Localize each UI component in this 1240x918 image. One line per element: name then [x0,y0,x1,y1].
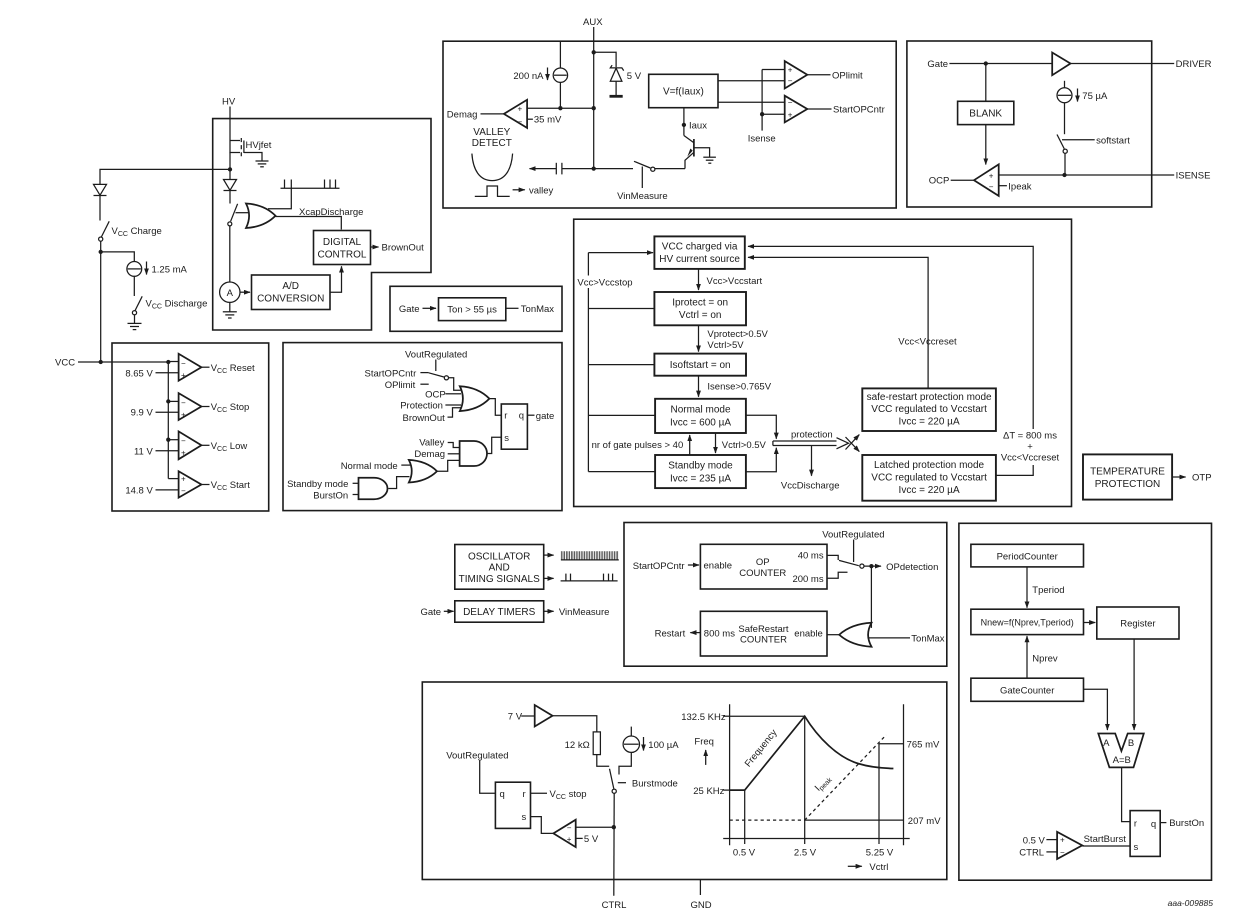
wire switch contact to OR gate input [236,212,250,214]
wire 40ms to switch [827,555,838,560]
node dot aux top [592,50,596,54]
svg-text:Vcc>Vccstop: Vcc>Vccstop [577,278,632,289]
wire start output [201,484,209,486]
zener diode 5V [610,65,623,81]
svg-text:A/D: A/D [282,281,299,292]
block OSCILLATOR AND TIMING SIGNALS [455,545,544,590]
svg-text:Isense>0.765V: Isense>0.765V [707,381,771,392]
flip-flop burst on [1130,811,1160,857]
graph x axis [723,838,910,840]
svg-text:5.25 V: 5.25 V [866,848,894,859]
svg-text:+: + [181,449,186,458]
gridline 5.25V [878,744,880,844]
wire feedback latched to sm1 [748,246,1033,475]
switch logic select [429,373,449,380]
svg-text:35 mV: 35 mV [534,115,562,126]
wire normal mode input [401,464,410,466]
wire demag comparator plus [527,107,594,109]
wire startopcntr stub [420,372,428,374]
pulse train glyph xcap timing [281,180,340,189]
graph y axis [729,704,731,845]
wire HV pin into block [229,107,231,141]
svg-text:−: − [181,398,186,407]
wire VCC rail [78,361,168,363]
wire valley input [448,443,460,448]
block burst mode box [422,682,947,880]
wire startop output [807,108,831,110]
transistor HVjfet [230,138,262,161]
wire gate to delay timers arrow [444,610,454,612]
wire 75uA to switch [1064,103,1066,134]
node dot iaux [682,123,686,127]
svg-text:DELAY TIMERS: DELAY TIMERS [463,607,536,618]
wire voutregulated to switch [435,360,437,372]
wire delay out arrow [544,610,554,612]
svg-text:OCP: OCP [929,176,950,187]
svg-text:Valley: Valley [419,438,444,449]
svg-text:COUNTER: COUNTER [740,635,787,646]
wire oplimit stub [420,383,428,385]
svg-text:TonMax: TonMax [911,634,945,645]
block TEMPERATURE PROTECTION [1083,454,1172,499]
ground below ammeter [223,312,237,318]
svg-text:+: + [181,410,186,419]
diode D1 VCC charge [94,184,107,195]
comparator OPlimit [785,61,808,88]
or-gate U6 mode OR [409,460,437,483]
wire ipeak stub [999,185,1007,187]
wire stub above 75uA [1064,81,1066,88]
wire pulse train to OR gate [268,188,291,209]
wire CS2 to plus rail [559,82,561,108]
svg-text:PeriodCounter: PeriodCounter [997,552,1058,563]
arrow emitter direction [687,149,692,157]
switch softstart [1057,135,1067,154]
block safe-restart protection mode [862,388,996,431]
block Register [1097,607,1179,639]
svg-text:HV current source: HV current source [659,254,740,265]
line 765mV [879,743,904,745]
svg-text:VALLEY: VALLEY [473,127,510,138]
wire reset output [201,366,209,368]
wire buffer to resistor [553,716,597,732]
wire AUX pin [593,27,595,52]
node dot opdetect [869,564,873,568]
wire gate arrow [423,307,437,309]
svg-text:0.5 V: 0.5 V [1023,835,1046,846]
wire low plus input [156,450,179,452]
wire ammeter to A/D arrow [240,291,250,293]
svg-text:Latched protection mode: Latched protection mode [874,460,985,471]
wire feedback safe-restart to sm1 [748,257,928,388]
comparator start burst [1057,832,1082,859]
wire normal to standby arrow [715,433,717,453]
wire Isense vertical [761,70,763,131]
svg-text:VCC regulated to Vccstart: VCC regulated to Vccstart [871,404,987,415]
or-gate U2 xcap discharge [246,204,276,229]
wire diode to switch [99,196,101,221]
svg-text:OCP: OCP [425,390,446,401]
svg-text:gate: gate [536,411,555,422]
arrow freq axis [705,750,707,765]
svg-text:q: q [519,410,524,421]
wire resistor to switch [597,755,609,767]
diode D2 in HV path [224,180,237,191]
svg-text:protection: protection [791,430,833,441]
svg-text:Demag: Demag [414,449,445,460]
svg-text:VCC Low: VCC Low [211,441,248,453]
comparator 5V burst [553,820,575,847]
wire nnew to register arrow [1084,622,1096,624]
svg-text:+: + [518,105,523,114]
svg-text:Ivcc = 235 µA: Ivcc = 235 µA [670,473,731,484]
current source 100 uA [623,736,639,752]
svg-text:Isense: Isense [748,134,776,145]
buffer driver [1052,53,1070,76]
svg-text:Burstmode: Burstmode [632,779,678,790]
node dot isense rail [1062,173,1066,177]
block TonMax timer box [390,286,562,331]
and-gate U5 valley/demag [460,441,487,466]
block OP COUNTER [700,544,827,589]
wire start plus input [168,478,178,480]
svg-text:12 kΩ: 12 kΩ [565,740,590,751]
wire switch down to ctrl [613,793,615,896]
svg-text:Vctrl>5V: Vctrl>5V [707,340,744,351]
comparator OCP [974,164,999,196]
wire normal mode to protection [746,415,776,439]
wire vf lower output [718,101,785,103]
wire isense to oplimit plus [762,69,785,71]
wire stub above 100uA [630,727,632,736]
wire 35mV stub [527,118,533,120]
svg-text:OSCILLATOR: OSCILLATOR [468,552,530,563]
svg-text:BrownOut: BrownOut [403,413,446,424]
svg-text:−: − [181,359,186,368]
svg-text:OPlimit: OPlimit [385,380,416,391]
wire sm3 to sm4 arrow [698,376,700,397]
capacitor C1 [556,163,562,175]
wire driver output [1071,63,1175,65]
comparator demag [504,100,527,128]
wire zener to bar [615,81,617,95]
svg-text:Vctrl: Vctrl [869,862,888,873]
wire A/D to digital control [330,266,342,292]
block Normal mode [655,399,746,433]
ground at Q1 base [703,157,716,163]
wire switch to isense [1064,153,1066,175]
svg-text:StartOPCntr: StartOPCntr [365,368,417,379]
wire switch to emitter [655,168,685,170]
svg-text:nr of gate pulses > 40: nr of gate pulses > 40 [592,440,684,451]
transistor Q1 [684,136,710,169]
svg-text:Demag: Demag [447,109,478,120]
wire burston input [353,494,359,496]
wire stop plus input [156,411,179,413]
svg-text:Restart: Restart [655,629,686,640]
svg-text:Gate: Gate [421,607,442,618]
line 132.5k level [730,715,805,717]
wire protection input [445,404,461,406]
svg-text:200 nA: 200 nA [513,71,544,82]
svg-text:+: + [1060,835,1065,844]
block Nnew [971,609,1084,634]
svg-text:s: s [504,433,509,444]
wire OTP arrow [1172,476,1186,478]
svg-text:7 V: 7 V [508,711,523,722]
block DIGITAL CONTROL [314,231,371,265]
comparator StartOPCntr [785,96,808,123]
wire standby to protection [746,448,776,472]
block OP counter outer box [624,523,947,667]
wire switch control [641,167,643,189]
flip-flop burst ctrl [495,782,530,828]
svg-text:AUX: AUX [583,17,603,28]
svg-text:XcapDischarge: XcapDischarge [299,207,363,218]
svg-text:DIGITAL: DIGITAL [323,237,362,248]
comparator VCC Reset [179,354,202,381]
comparator VCC Low [179,431,202,459]
svg-text:ΔT = 800 ms: ΔT = 800 ms [1003,431,1057,442]
svg-text:Protection: Protection [400,401,443,412]
svg-text:100 µA: 100 µA [648,740,679,751]
svg-text:Iaux: Iaux [689,120,707,131]
wire 7V to buffer [521,715,534,717]
wire or to saferestart enable [827,634,839,636]
svg-text:132.5 KHz: 132.5 KHz [681,712,726,723]
svg-text:+: + [181,475,186,484]
block Standby mode [655,455,746,488]
wire switch to OPdetection arrow [864,565,881,567]
buffer 7V [535,705,553,727]
wire to zener [594,52,616,67]
wire bus arrow into sm1 [588,252,653,254]
wire gatecounter to funnel A arrow [1084,689,1108,730]
wire sm2 to sm3 arrow [698,325,700,351]
svg-text:BLANK: BLANK [969,109,1002,120]
wire osc out1 arrow [544,554,554,556]
wire TonMax input [869,637,910,639]
svg-text:25 KHz: 25 KHz [693,786,724,797]
svg-text:207 mV: 207 mV [908,816,941,827]
wire switch to OR [449,378,461,390]
svg-text:VoutRegulated: VoutRegulated [446,751,508,762]
node dot isense [760,112,764,116]
svg-text:OTP: OTP [1192,473,1212,484]
block VCC charged via HV current source [654,236,744,269]
wire register to funnel B arrow [1133,639,1135,730]
node dot gate [984,61,988,65]
svg-text:−: − [567,823,572,832]
wire gatecounter to nnew arrow [1026,636,1028,678]
fork to latched arrow [846,437,860,452]
wire demag input [448,453,460,455]
svg-text:−: − [181,487,186,496]
wire gate to driver [949,63,1052,65]
arrow vctrl [848,865,862,867]
svg-text:Vcc<Vccreset: Vcc<Vccreset [1001,453,1060,464]
wire reset plus input [156,372,179,374]
wire vf upper output [718,80,785,82]
node bus dot1 [166,360,170,364]
wire gate output [527,414,534,416]
node dot VCC rail [99,360,103,364]
svg-text:BrownOut: BrownOut [382,243,425,254]
dashed 207mV left [730,819,805,821]
svg-text:OP: OP [756,557,770,568]
svg-text:VCC Start: VCC Start [211,480,251,492]
sparse pulse glyph [561,574,618,581]
wire branch to current source [101,252,135,262]
wire TonMax out [506,307,519,309]
svg-text:TEMPERATURE: TEMPERATURE [1090,467,1165,478]
svg-text:−: − [1060,848,1065,857]
wire AND2 to OR input [388,477,409,489]
block driver box [907,41,1152,207]
wire softstart label line [1062,139,1095,141]
block outline HV startup box [213,119,431,330]
flip-flop U4 gate latch [501,404,527,449]
arrow current direction [146,262,148,275]
svg-text:PROTECTION: PROTECTION [1095,479,1161,490]
wire left feedback bus [588,253,655,472]
svg-text:DETECT: DETECT [472,138,512,149]
svg-text:Normal mode: Normal mode [670,404,730,415]
svg-text:Vctrl = on: Vctrl = on [679,310,722,321]
node dot cs2 [558,106,562,110]
svg-text:OPdetection: OPdetection [886,562,938,573]
svg-text:VinMeasure: VinMeasure [559,607,610,618]
tick 132.5KHz [723,715,729,717]
svg-text:r: r [504,410,507,421]
arrow 100uA direction [643,737,645,751]
label delta T block [999,429,1065,465]
svg-text:Vctrl>0.5V: Vctrl>0.5V [722,440,767,451]
svg-text:+: + [181,371,186,380]
svg-text:VoutRegulated: VoutRegulated [405,349,467,360]
wire oplimit output [807,74,830,76]
wire voutreg to ff q [480,761,496,794]
wire blank to ocp arrow [985,125,987,165]
arrow to valley [513,189,525,191]
svg-text:Vcc>Vccstart: Vcc>Vccstart [707,276,763,287]
svg-text:Vcc<Vccreset: Vcc<Vccreset [898,337,957,348]
svg-text:HVjfet: HVjfet [246,140,272,151]
wire source to discharge switch [133,276,135,296]
wire aux vertical [593,52,595,168]
svg-text:VCC Stop: VCC Stop [211,402,250,414]
block state machine box [574,219,1072,506]
svg-text:+: + [567,835,572,844]
svg-text:+: + [989,171,994,180]
or-gate U8 tonmax [839,623,871,647]
wire comp minus to ctrl [576,826,614,828]
svg-text:VoutRegulated: VoutRegulated [822,530,884,541]
svg-text:−: − [181,437,186,446]
svg-text:Normal mode: Normal mode [341,461,398,472]
wire reset minus input [168,361,178,363]
frequency curve [730,716,894,790]
block SafeRestart COUNTER [700,611,827,656]
svg-text:GateCounter: GateCounter [1000,686,1054,697]
current source 75 uA [1057,88,1072,103]
wire stop output [201,406,209,408]
node dot aux bottom [592,166,596,170]
node dot ctrl line [612,825,616,829]
svg-text:Isoftstart = on: Isoftstart = on [670,360,731,371]
svg-text:−: − [989,183,994,192]
wire diode to switch [229,191,231,204]
wire gnd pin [699,880,701,896]
wire start minus input [156,489,179,491]
comparator A=B funnel [1098,734,1144,768]
svg-text:r: r [1134,818,1137,829]
block Ton > 55 us [439,298,506,321]
wire 0.5V input [1046,839,1057,841]
svg-text:CONTROL: CONTROL [318,250,367,261]
wire 5V stub [576,837,583,839]
block latched protection mode [862,455,996,501]
wire brownout input [448,408,462,417]
block V=f(Iaux) [649,74,718,107]
wire comp out to ff s [531,817,554,834]
svg-text:StartBurst: StartBurst [1084,834,1127,845]
fork to safe-restart arrow [846,435,860,450]
wire low minus input [168,439,178,441]
wire VCC sense bus [167,362,169,479]
wire OR to flipflop r [489,399,501,416]
wire osc out2 arrow [544,577,554,579]
svg-text:75 µA: 75 µA [1082,91,1108,102]
node bus dot3 [166,438,170,442]
svg-text:Register: Register [1120,619,1155,630]
current source 1.25 mA [127,262,142,277]
svg-text:VinMeasure: VinMeasure [617,191,668,202]
svg-text:VccDischarge: VccDischarge [781,480,840,491]
line 207mV right [805,819,904,821]
wire cap to switch [562,168,633,170]
svg-text:Standby mode: Standby mode [287,479,348,490]
node junction charge pump [99,250,103,254]
svg-text:safe-restart protection mode: safe-restart protection mode [867,392,992,403]
svg-text:+: + [788,110,793,119]
svg-text:40 ms: 40 ms [798,551,824,562]
wire mode OR to AND input [437,460,460,471]
svg-text:Tperiod: Tperiod [1032,585,1064,596]
switch VCC Discharge [132,296,142,315]
wire CS2 from box top [559,41,561,68]
wire demag output [481,113,504,115]
svg-text:Ivcc = 220 µA: Ivcc = 220 µA [899,485,960,496]
wire burston out [1160,822,1166,824]
svg-text:DRIVER: DRIVER [1176,59,1212,70]
svg-text:Ivcc = 220 µA: Ivcc = 220 µA [899,417,960,428]
svg-text:enable: enable [794,629,823,640]
svg-text:Iprotect = on: Iprotect = on [672,298,728,309]
block A/D CONVERSION [252,275,331,310]
svg-text:14.8 V: 14.8 V [125,485,153,496]
ground discharge [128,323,142,329]
node dot aux mid [592,106,596,110]
switch VinMeasure [634,161,655,171]
svg-text:−: − [788,98,793,107]
svg-text:VCC regulated to Vccstart: VCC regulated to Vccstart [871,472,987,483]
wire VccDischarge arrow [811,446,813,476]
wire sm1 to sm2 arrow [698,269,700,290]
block Isoftstart on [654,354,746,376]
svg-text:A=B: A=B [1113,755,1131,766]
wire switch to ground [134,315,136,324]
